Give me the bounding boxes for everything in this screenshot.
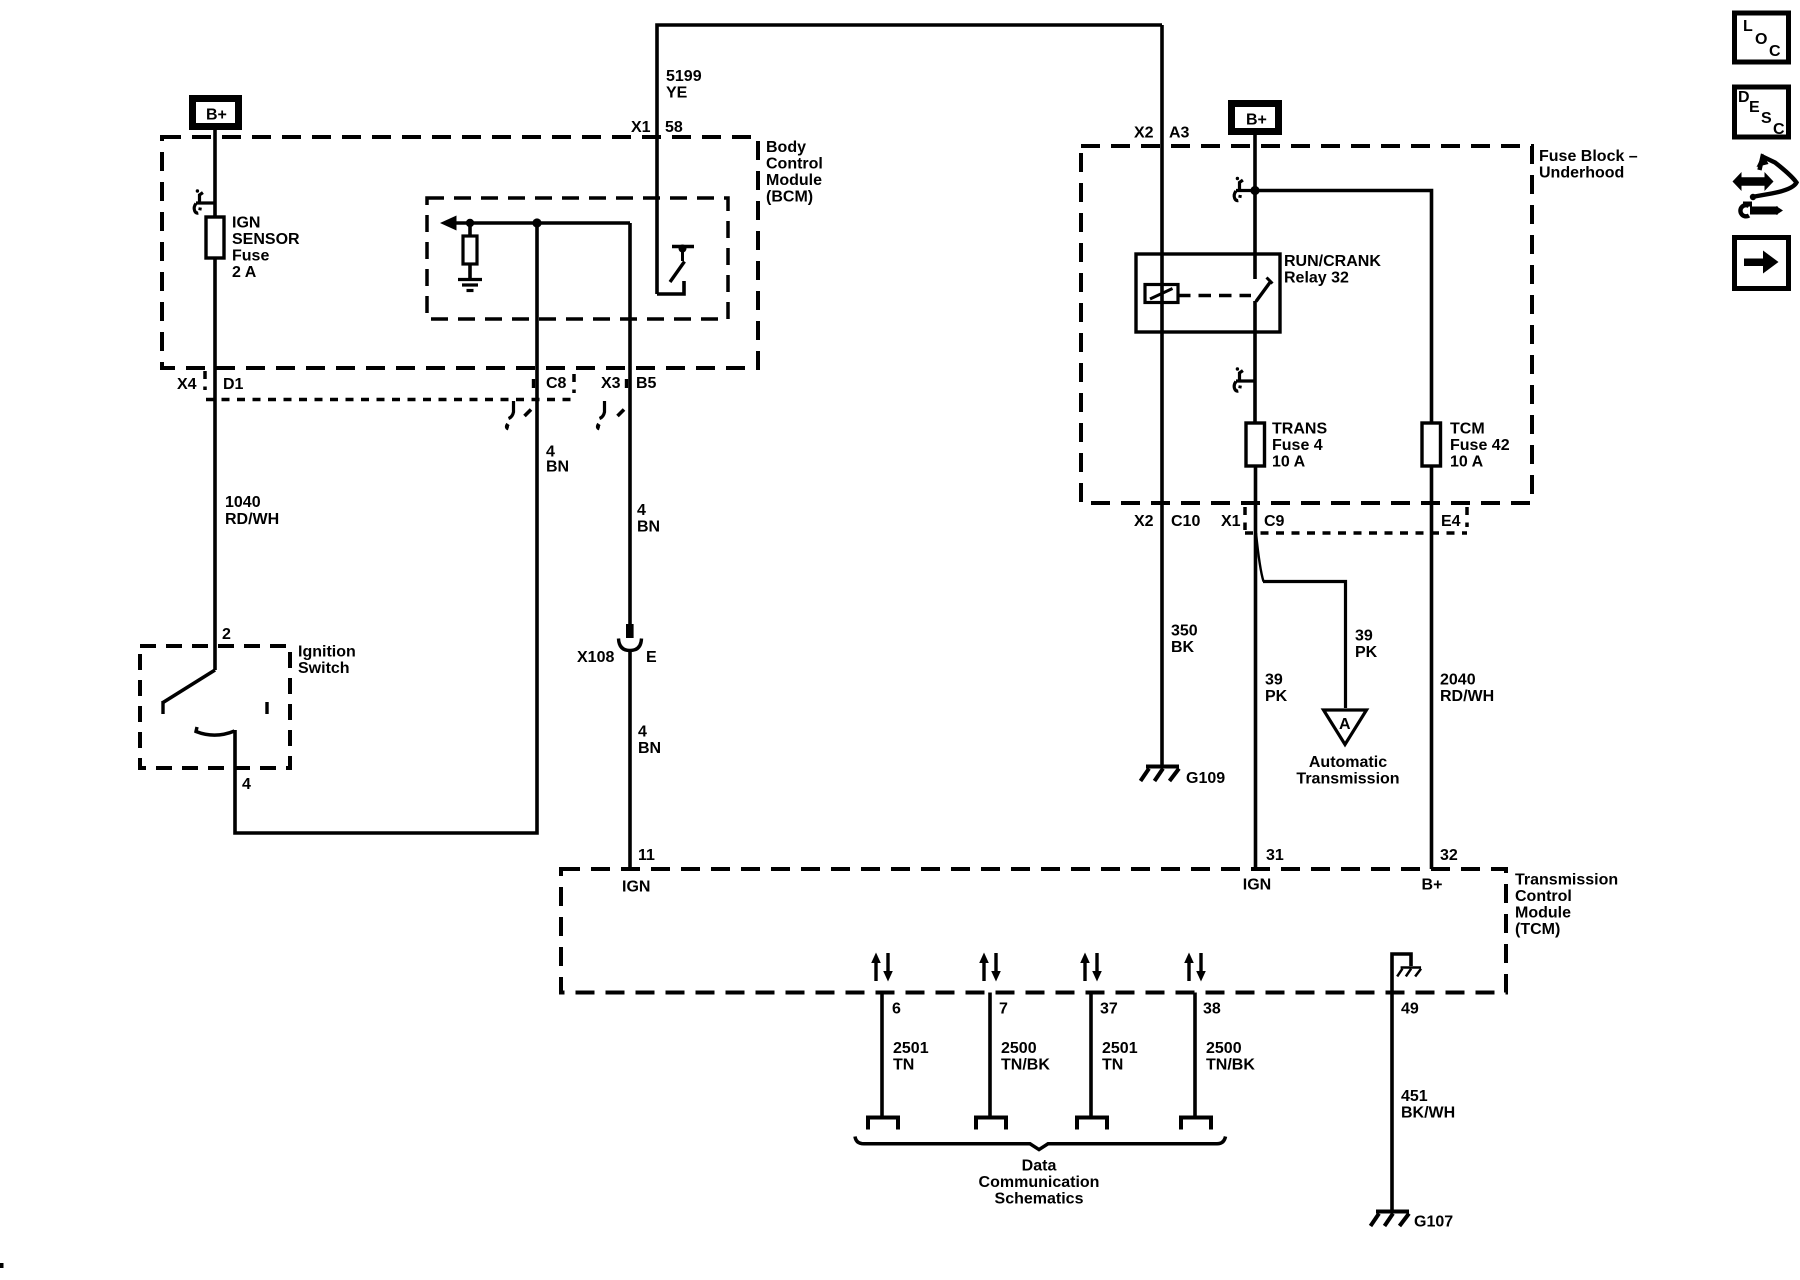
- svg-text:Switch: Switch: [298, 660, 350, 677]
- svg-text:IGN: IGN: [622, 879, 650, 896]
- svg-text:11: 11: [638, 847, 655, 864]
- ignition switch contact tick: [265, 702, 268, 714]
- ground G109: [1141, 767, 1180, 782]
- svg-text:D: D: [1738, 89, 1750, 106]
- svg-text:IGN: IGN: [232, 215, 260, 232]
- fuse IGN SENSOR Fuse 2A: [206, 217, 224, 258]
- wire 5199 YE top run from BCM X1-58 to fuse block X2-A3: [657, 25, 1162, 294]
- svg-text:Data: Data: [1022, 1158, 1057, 1175]
- module Transmission Control Module (TCM) dashed box: [561, 869, 1506, 993]
- clip at connector X3-B5: [598, 379, 627, 429]
- wire thin tap from C9 to automatic transmission branch: [1256, 533, 1264, 582]
- svg-text:TRANS: TRANS: [1272, 421, 1327, 438]
- ignition switch dashed box: [140, 646, 290, 768]
- svg-text:38: 38: [1203, 1001, 1221, 1018]
- ignition switch arm pin 2: [163, 670, 267, 735]
- icon DESC box: [1735, 87, 1789, 138]
- connector tick X4: [203, 371, 207, 390]
- svg-text:Communication: Communication: [979, 1174, 1100, 1191]
- svg-text:Fuse Block –: Fuse Block –: [1539, 148, 1638, 165]
- svg-text:6: 6: [892, 1001, 901, 1018]
- switch in BCM (from 5199 YE): [657, 247, 694, 295]
- wire 350 BK / fuse block X2 branch down to G109: [1160, 25, 1164, 766]
- svg-text:Automatic: Automatic: [1309, 754, 1387, 771]
- svg-text:4: 4: [637, 502, 646, 519]
- svg-text:PK: PK: [1355, 644, 1378, 661]
- svg-text:A3: A3: [1169, 125, 1190, 142]
- wire TCM pin 7 stub: [988, 993, 992, 1116]
- svg-text:37: 37: [1100, 1001, 1118, 1018]
- relay switch arm: [1256, 281, 1271, 302]
- wire B+ right feed into RUN/CRANK relay switch: [1253, 135, 1257, 279]
- terminal box pin 7 wire: [976, 1118, 1006, 1130]
- svg-text:X4: X4: [177, 376, 197, 393]
- module Body Control Module (BCM) dashed box: [162, 137, 758, 368]
- svg-text:RUN/CRANK: RUN/CRANK: [1284, 253, 1381, 270]
- terminal B+ left box: [193, 99, 239, 127]
- svg-text:Control: Control: [1515, 888, 1572, 905]
- terminal box pin 6 wire: [868, 1118, 898, 1130]
- svg-text:X2: X2: [1134, 513, 1154, 530]
- svg-text:E: E: [646, 649, 657, 666]
- svg-text:2040: 2040: [1440, 672, 1476, 689]
- svg-text:E4: E4: [1441, 513, 1461, 530]
- svg-text:YE: YE: [666, 85, 688, 102]
- svg-text:Relay 32: Relay 32: [1284, 270, 1349, 287]
- svg-text:X1: X1: [1221, 513, 1241, 530]
- svg-text:39: 39: [1355, 628, 1373, 645]
- svg-text:Body: Body: [766, 139, 806, 156]
- fuse TCM Fuse 42 10A: [1422, 423, 1441, 466]
- wire 451 BK/WH from TCM pin 49 to G107: [1392, 954, 1411, 1211]
- svg-text:2 A: 2 A: [232, 264, 257, 281]
- ignition switch pin 4 arc: [196, 727, 235, 735]
- svg-text:2501: 2501: [1102, 1040, 1138, 1057]
- wire 39 PK from TRANS fuse through C9 to TCM pin 31: [1254, 466, 1258, 869]
- svg-text:L: L: [1743, 18, 1753, 35]
- connector row X4-D1 dotted line: [206, 398, 574, 402]
- BCM internal dashed sub-box: [427, 198, 728, 319]
- icon wrench arrow: [1740, 202, 1783, 217]
- fuse TRANS Fuse 4 10A: [1246, 423, 1265, 466]
- svg-text:C9: C9: [1264, 513, 1285, 530]
- svg-text:X3: X3: [601, 375, 621, 392]
- wire from IGN SENSOR fuse to ignition switch pin 2: [213, 258, 217, 670]
- wire 2040 RD/WH from TCM fuse through E4 to TCM pin 32: [1430, 466, 1434, 869]
- connector tick X1-C9: [1243, 507, 1247, 530]
- svg-text:B+: B+: [1422, 877, 1443, 894]
- wire TCM pin 38 stub: [1193, 993, 1197, 1116]
- earth ground under resistor: [458, 280, 482, 291]
- svg-text:10 A: 10 A: [1272, 454, 1306, 471]
- icon forward arrow box: [1735, 238, 1789, 289]
- svg-text:Control: Control: [766, 156, 823, 173]
- svg-text:D1: D1: [223, 376, 244, 393]
- svg-text:B5: B5: [636, 375, 657, 392]
- svg-text:4: 4: [638, 724, 647, 741]
- resistor in BCM: [463, 236, 477, 264]
- data arrows pin 6: [871, 953, 893, 982]
- svg-text:RD/WH: RD/WH: [1440, 688, 1494, 705]
- svg-text:Fuse 4: Fuse 4: [1272, 437, 1323, 454]
- svg-text:1040: 1040: [225, 494, 261, 511]
- svg-text:TCM: TCM: [1450, 421, 1485, 438]
- svg-text:RD/WH: RD/WH: [225, 511, 279, 528]
- svg-text:451: 451: [1401, 1088, 1428, 1105]
- node junction dot at C8 riser: [532, 218, 541, 227]
- icon routing squiggle: [1750, 154, 1797, 201]
- svg-text:Module: Module: [766, 172, 822, 189]
- svg-text:Ignition: Ignition: [298, 644, 356, 661]
- svg-text:TN/BK: TN/BK: [1001, 1057, 1050, 1074]
- wire TCM pin 37 stub: [1089, 993, 1093, 1116]
- svg-text:Underhood: Underhood: [1539, 165, 1624, 182]
- data arrows pin 38: [1184, 953, 1206, 982]
- svg-text:TN/BK: TN/BK: [1206, 1057, 1255, 1074]
- triangle A Automatic Transmission: [1324, 710, 1367, 745]
- wire TCM pin 6 stub: [880, 993, 884, 1116]
- svg-text:Fuse: Fuse: [232, 248, 269, 265]
- svg-text:Schematics: Schematics: [995, 1191, 1084, 1208]
- relay link dashed: [1178, 294, 1251, 297]
- svg-text:2: 2: [222, 626, 231, 643]
- terminal box pin 37 wire: [1077, 1118, 1107, 1130]
- svg-text:B+: B+: [206, 107, 227, 124]
- wire internal BCM bus from arrow to corner: [453, 221, 630, 225]
- svg-text:(BCM): (BCM): [766, 189, 813, 206]
- data arrows pin 37: [1080, 953, 1102, 982]
- node junction dot at resistor tap: [466, 219, 474, 227]
- svg-text:2500: 2500: [1001, 1040, 1037, 1057]
- wire ignition switch pin 4 down, right, and up through C8 to BCM junction: [235, 223, 537, 833]
- ground G107: [1371, 1212, 1410, 1227]
- svg-text:10 A: 10 A: [1450, 454, 1484, 471]
- svg-text:BN: BN: [546, 459, 569, 476]
- stray dot bottom left: [0, 1263, 4, 1268]
- svg-text:X2: X2: [1134, 125, 1154, 142]
- svg-text:350: 350: [1171, 623, 1198, 640]
- svg-text:49: 49: [1401, 1001, 1419, 1018]
- connector row X1-C9-E4 dotted line: [1245, 531, 1467, 535]
- wire 4 BN from BCM B5 down to X108: [628, 223, 632, 625]
- svg-text:4: 4: [242, 776, 251, 793]
- svg-text:2500: 2500: [1206, 1040, 1242, 1057]
- svg-text:SENSOR: SENSOR: [232, 231, 300, 248]
- icon double arrow: [1733, 172, 1774, 191]
- svg-text:BK: BK: [1171, 639, 1195, 656]
- clip at IGN SENSOR fuse: [194, 189, 215, 213]
- clip at fuse block B+ entry: [1234, 177, 1255, 201]
- svg-text:G107: G107: [1414, 1214, 1453, 1231]
- svg-text:BN: BN: [638, 740, 661, 757]
- wire resistor to ground: [468, 264, 472, 279]
- clip above TRANS fuse: [1234, 367, 1255, 391]
- svg-text:C: C: [1773, 121, 1785, 138]
- svg-text:7: 7: [999, 1001, 1008, 1018]
- svg-text:5199: 5199: [666, 68, 702, 85]
- terminal box pin 38 wire: [1181, 1118, 1211, 1130]
- svg-text:32: 32: [1440, 847, 1458, 864]
- svg-text:Fuse 42: Fuse 42: [1450, 437, 1510, 454]
- node dot on BCM switch fixed contact: [679, 245, 687, 253]
- clip at connector C8: [507, 379, 534, 429]
- relay RUN/CRANK Relay 32 solid box: [1136, 254, 1280, 332]
- svg-text:A: A: [1339, 716, 1351, 733]
- ground internal TCM pin 49: [1397, 968, 1421, 977]
- inline connector X108 E: [619, 624, 642, 651]
- svg-text:O: O: [1755, 31, 1767, 48]
- wire 39 PK branch to triangle A: [1263, 582, 1346, 709]
- connector tick E4: [1465, 507, 1469, 527]
- svg-text:G109: G109: [1186, 770, 1225, 787]
- svg-text:E: E: [1749, 99, 1760, 116]
- fuse block underhood dashed box: [1081, 146, 1532, 503]
- terminal B+ right box: [1232, 104, 1279, 132]
- svg-text:Transmission: Transmission: [1296, 771, 1399, 788]
- arrow off-page left in BCM: [440, 216, 457, 231]
- svg-text:BK/WH: BK/WH: [1401, 1105, 1455, 1122]
- svg-text:C: C: [1769, 43, 1781, 60]
- connector tick C8: [572, 374, 576, 393]
- svg-text:39: 39: [1265, 672, 1283, 689]
- svg-text:PK: PK: [1265, 688, 1288, 705]
- node junction dot at B+ branch: [1250, 186, 1259, 195]
- svg-text:Module: Module: [1515, 905, 1571, 922]
- svg-text:B+: B+: [1246, 112, 1267, 129]
- svg-text:31: 31: [1266, 847, 1284, 864]
- wire 4 BN from X108 to TCM pin 11: [628, 649, 632, 869]
- svg-text:TN: TN: [1102, 1057, 1123, 1074]
- svg-text:IGN: IGN: [1243, 877, 1271, 894]
- brace Data Communication Schematics: [855, 1137, 1226, 1150]
- relay coil RUN/CRANK: [1145, 278, 1273, 303]
- wire B+ left feed into IGN SENSOR fuse: [213, 130, 217, 217]
- svg-text:Transmission: Transmission: [1515, 872, 1618, 889]
- svg-text:(TCM): (TCM): [1515, 921, 1560, 938]
- svg-text:BN: BN: [637, 519, 660, 536]
- wire resistor to internal bus: [468, 223, 472, 236]
- svg-text:X108: X108: [577, 649, 614, 666]
- svg-text:X1: X1: [631, 119, 651, 136]
- wire branch at B+ to TCM fuse 42: [1255, 191, 1432, 424]
- svg-text:C10: C10: [1171, 513, 1200, 530]
- wire relay switch output to TRANS fuse: [1253, 301, 1257, 423]
- svg-text:C8: C8: [546, 375, 567, 392]
- data arrows pin 7: [979, 953, 1001, 982]
- svg-text:58: 58: [665, 119, 683, 136]
- svg-text:S: S: [1761, 110, 1772, 127]
- icon LOC box: [1735, 13, 1789, 62]
- svg-text:2501: 2501: [893, 1040, 929, 1057]
- svg-text:TN: TN: [893, 1057, 914, 1074]
